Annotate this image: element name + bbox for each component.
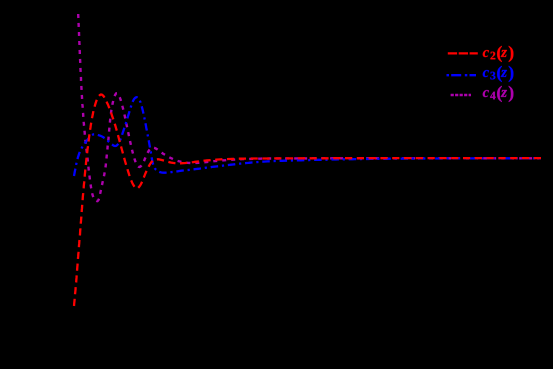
legend sample c3 [447,74,477,76]
legend label c2(z) [483,46,514,62]
legend label c3(z) [483,66,514,82]
curve c4 (purple dotted) [78,14,541,201]
legend sample c4 [451,94,471,97]
legend label c4(z) [483,86,514,102]
legend sample c2 [448,52,478,54]
curve c2 (red dashed) [74,95,541,307]
curve c3 (blue dash-dot) [74,97,541,176]
